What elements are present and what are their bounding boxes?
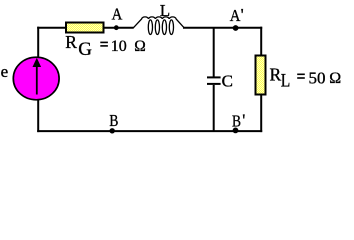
svg-text:G: G bbox=[78, 39, 92, 60]
svg-text:e: e bbox=[1, 62, 9, 81]
wire capacitor branch upper bbox=[213, 28, 215, 77]
node B' dot bbox=[233, 127, 239, 133]
wire left vertical lower bbox=[37, 98, 39, 132]
node A dot bbox=[114, 25, 119, 30]
svg-text:L: L bbox=[160, 1, 170, 20]
capacitor C bottom plate bbox=[207, 83, 221, 85]
source e arrow head bbox=[33, 58, 42, 67]
label R_G = 10 ohm bbox=[65, 32, 145, 60]
svg-text:C: C bbox=[222, 71, 233, 90]
svg-text:Ω: Ω bbox=[329, 70, 341, 87]
capacitor C top plate bbox=[207, 76, 221, 78]
svg-text:10: 10 bbox=[111, 38, 127, 55]
svg-text:B: B bbox=[232, 112, 241, 131]
source e circle bbox=[13, 57, 59, 100]
source e arrow shaft bbox=[36, 66, 38, 95]
svg-text:R: R bbox=[270, 64, 282, 84]
wire capacitor branch lower bbox=[213, 85, 215, 131]
svg-text:Ω: Ω bbox=[134, 38, 146, 55]
label R_L = 50 ohm bbox=[270, 64, 342, 91]
wire right vertical lower bbox=[260, 95, 262, 133]
svg-text:': ' bbox=[242, 110, 245, 129]
wire R_G to node A bbox=[105, 27, 134, 29]
svg-text:R: R bbox=[65, 32, 77, 52]
wire bottom horizontal bbox=[37, 130, 262, 132]
wire top-left horizontal bbox=[37, 27, 66, 29]
node B dot bbox=[110, 128, 115, 133]
svg-text:A: A bbox=[230, 6, 241, 25]
svg-text:L: L bbox=[281, 72, 291, 92]
svg-text:50: 50 bbox=[309, 68, 326, 87]
inductor L coil bbox=[133, 17, 184, 35]
svg-text:A: A bbox=[112, 5, 123, 24]
wire right vertical upper bbox=[260, 27, 262, 56]
svg-text:': ' bbox=[241, 5, 244, 24]
wire L to top-right corner bbox=[183, 27, 262, 29]
wire left vertical upper bbox=[37, 27, 39, 59]
node A' dot bbox=[233, 25, 239, 31]
svg-text:B: B bbox=[109, 111, 118, 130]
resistor R_G bbox=[66, 23, 104, 33]
resistor R_L bbox=[256, 56, 266, 95]
